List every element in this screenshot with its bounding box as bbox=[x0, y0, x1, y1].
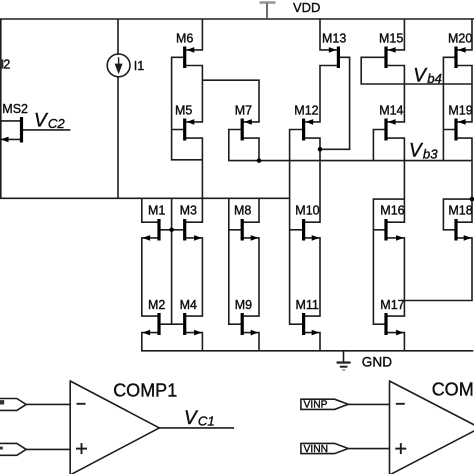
svg-text:GND: GND bbox=[362, 354, 392, 369]
svg-text:M19: M19 bbox=[448, 103, 472, 117]
svg-text:COMP2: COMP2 bbox=[432, 379, 474, 399]
svg-text:M1: M1 bbox=[148, 204, 165, 218]
svg-text:M10: M10 bbox=[295, 204, 319, 218]
svg-text:M8: M8 bbox=[234, 204, 251, 218]
svg-text:2: 2 bbox=[3, 58, 10, 72]
svg-text:M4: M4 bbox=[180, 298, 197, 312]
svg-text:M12: M12 bbox=[294, 103, 318, 117]
svg-text:M14: M14 bbox=[379, 103, 403, 117]
svg-text:M13: M13 bbox=[322, 31, 346, 45]
svg-text:VINN: VINN bbox=[304, 444, 329, 455]
svg-text:M3: M3 bbox=[180, 204, 197, 218]
svg-text:COMP1: COMP1 bbox=[113, 380, 177, 400]
svg-text:M6: M6 bbox=[176, 31, 193, 45]
svg-text:M17: M17 bbox=[380, 298, 404, 312]
svg-text:MS2: MS2 bbox=[2, 102, 28, 116]
svg-text:M5: M5 bbox=[175, 103, 192, 117]
svg-text:VINP: VINP bbox=[304, 400, 328, 411]
svg-text:M15: M15 bbox=[379, 31, 403, 45]
svg-text:M11: M11 bbox=[296, 298, 319, 312]
svg-text:M9: M9 bbox=[235, 298, 252, 312]
svg-text:M18: M18 bbox=[448, 204, 472, 218]
svg-text:I1: I1 bbox=[134, 59, 145, 73]
svg-text:M2: M2 bbox=[148, 298, 165, 312]
svg-text:M7: M7 bbox=[235, 103, 252, 117]
svg-text:M20: M20 bbox=[448, 31, 472, 45]
svg-text:M16: M16 bbox=[380, 204, 404, 218]
svg-text:VDD: VDD bbox=[293, 0, 320, 15]
